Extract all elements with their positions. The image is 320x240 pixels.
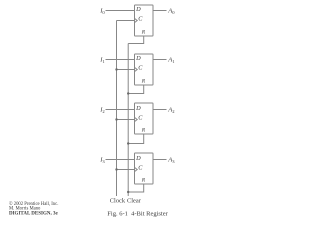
- svg-text:D: D: [135, 55, 141, 62]
- wire clock to C of U1: [117, 69, 135, 71]
- svg-text:A1: A1: [167, 57, 175, 64]
- svg-text:D: D: [135, 105, 141, 112]
- svg-text:R: R: [141, 128, 146, 134]
- svg-text:I3: I3: [99, 157, 105, 164]
- svg-text:A3: A3: [167, 157, 175, 164]
- svg-text:R: R: [141, 30, 146, 36]
- wire U1 R to Clear bus: [128, 85, 144, 94]
- wire I0 to D input of U0: [106, 10, 135, 12]
- wire U2 R to Clear bus: [128, 134, 144, 144]
- svg-text:DIGITAL DESIGN, 3e: DIGITAL DESIGN, 3e: [9, 211, 58, 216]
- clock wedge U1: [135, 67, 138, 71]
- wire U0 Q output to A0: [153, 10, 167, 12]
- wire U3 R to Clear bus: [128, 184, 144, 192]
- wire clock to C of U0: [117, 20, 135, 22]
- svg-text:D: D: [135, 155, 141, 162]
- svg-text:D: D: [135, 6, 141, 13]
- flip-flop U0 (D flip-flop, bit 0): [135, 5, 154, 36]
- junction clock/C-U3: [115, 168, 117, 170]
- junction clear/R-U2: [127, 142, 129, 144]
- svg-text:C: C: [138, 115, 143, 122]
- svg-text:I1: I1: [99, 57, 105, 64]
- wire clock to C of U2: [117, 119, 135, 121]
- wire I3 to D input of U3: [106, 159, 135, 161]
- clock wedge U2: [135, 117, 138, 121]
- flip-flop U2 (D flip-flop, bit 2): [135, 103, 154, 134]
- svg-text:Fig. 6-1 4-Bit Register: Fig. 6-1 4-Bit Register: [107, 210, 168, 217]
- wire Clock bus (vertical): [116, 21, 118, 197]
- junction clock/C-U1: [115, 68, 117, 70]
- svg-text:Clear: Clear: [127, 198, 142, 205]
- wire U3 Q output to A3: [153, 159, 167, 161]
- clock wedge U3: [135, 167, 138, 171]
- svg-text:R: R: [141, 178, 146, 184]
- svg-text:I0: I0: [99, 8, 105, 15]
- svg-text:C: C: [138, 65, 143, 72]
- flip-flop U3 (D flip-flop, bit 3): [135, 153, 154, 184]
- svg-text:I2: I2: [99, 107, 105, 114]
- wire I1 to D input of U1: [106, 59, 135, 61]
- wire U0 R to Clear bus: [128, 36, 144, 44]
- junction clock/C-U2: [115, 118, 117, 120]
- wire clock to C of U3: [117, 169, 135, 171]
- wire I2 to D input of U2: [106, 109, 135, 111]
- svg-text:A2: A2: [167, 107, 175, 114]
- svg-text:Clock: Clock: [110, 198, 126, 205]
- svg-text:C: C: [138, 16, 143, 23]
- wire U1 Q output to A1: [153, 59, 167, 61]
- junction clear/R-U3: [127, 191, 129, 193]
- clock wedge U0: [135, 18, 138, 22]
- flip-flop U1 (D flip-flop, bit 1): [135, 54, 154, 85]
- svg-text:C: C: [138, 165, 143, 172]
- junction clear/R-U1: [127, 92, 129, 94]
- svg-text:R: R: [141, 79, 146, 85]
- wire U2 Q output to A2: [153, 109, 167, 111]
- svg-text:A0: A0: [167, 8, 175, 15]
- wire Clear bus (vertical): [127, 44, 129, 197]
